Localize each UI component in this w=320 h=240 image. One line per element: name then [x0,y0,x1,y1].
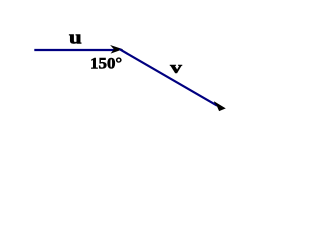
svg-text:v: v [170,58,182,77]
wire vector v shaft [119,49,217,106]
svg-text:u: u [69,29,82,49]
wire vector u shaft [34,49,114,51]
node arrowhead of u [111,46,121,53]
node arrowhead of v [214,102,225,111]
svg-text:150°: 150° [90,56,122,73]
